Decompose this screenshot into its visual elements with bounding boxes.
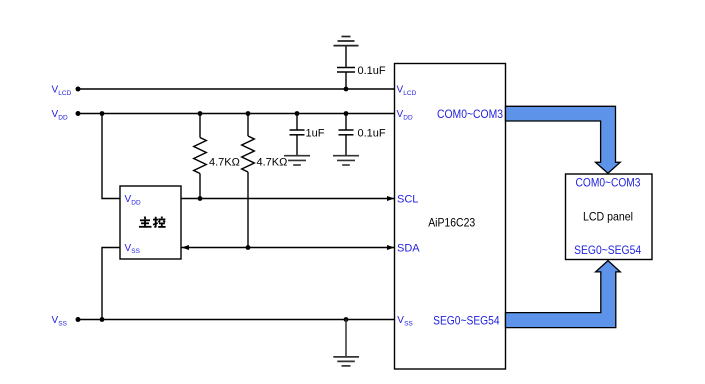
svg-text:SEG0~SEG54: SEG0~SEG54 [433, 314, 500, 328]
node V_SS terminal [76, 317, 81, 322]
label MCU name 主控 (drawn glyphs) [139, 217, 166, 228]
ground above C3 (inverted) [334, 37, 359, 46]
resistor R2 4.7KOhm [242, 114, 255, 248]
resistor R1 4.7KOhm [194, 114, 207, 199]
label MCU pin V_DD [125, 194, 141, 206]
label V_DD (left rail) [52, 109, 68, 121]
svg-text:LCD: LCD [58, 90, 71, 97]
label U1 pin V_DD [397, 109, 413, 121]
label V_LCD (left rail) [52, 85, 72, 97]
node C_01uF top junction [344, 111, 349, 116]
node V_DD drop junction [100, 111, 105, 116]
IC U1 AiP16C23 [395, 64, 506, 370]
svg-text:SCL: SCL [397, 193, 418, 205]
svg-text:SDA: SDA [397, 242, 420, 254]
node C_1uF top junction [295, 111, 300, 116]
svg-text:LCD panel: LCD panel [583, 209, 633, 223]
svg-text:SEG0~SEG54: SEG0~SEG54 [574, 243, 641, 257]
node V_DD terminal [76, 111, 81, 116]
label U1 pin V_LCD [397, 85, 417, 97]
LCD panel block [566, 174, 653, 260]
wire SCL [181, 198, 395, 200]
arrowhead SCL into U1 [387, 196, 395, 201]
ground on V_SS rail [333, 320, 359, 366]
ground under C1 [284, 156, 310, 165]
node R2 top junction [246, 111, 251, 116]
MCU block 主控 [120, 186, 181, 259]
svg-text:DD: DD [403, 114, 413, 121]
svg-text:SS: SS [58, 320, 67, 327]
capacitor C3 0.1uF (top, to V_LCD) [337, 46, 355, 89]
node V_SS ground junction [344, 317, 349, 322]
node V_LCD terminal [76, 87, 81, 92]
capacitor C2 0.1uF [339, 114, 354, 156]
svg-text:DD: DD [131, 199, 141, 206]
wire V_SS rail [78, 319, 395, 321]
label U1 pin V_SS [397, 315, 413, 327]
arrowhead SDA into U1 [387, 245, 395, 250]
bus arrow COM0~COM3 to LCD [506, 106, 621, 173]
node R1 top junction [198, 111, 203, 116]
wire SDA [182, 247, 395, 249]
svg-text:COM0~COM3: COM0~COM3 [576, 176, 641, 190]
svg-text:LCD: LCD [403, 90, 416, 97]
node SCL junction R1 [198, 196, 203, 201]
wire V_SS to MCU [102, 248, 120, 320]
capacitor C1 1uF [290, 114, 305, 156]
svg-text:0.1uF: 0.1uF [358, 127, 386, 139]
svg-text:COM0~COM3: COM0~COM3 [437, 107, 503, 121]
node V_SS drop junction [100, 317, 105, 322]
svg-text:0.1uF: 0.1uF [358, 65, 386, 77]
svg-text:4.7KΩ: 4.7KΩ [209, 156, 240, 168]
bus arrow SEG0~SEG54 to LCD [506, 261, 621, 328]
wire V_DD rail [78, 113, 395, 115]
arrowhead SDA into MCU [182, 245, 190, 250]
svg-text:DD: DD [58, 114, 68, 121]
svg-text:SS: SS [404, 320, 413, 327]
ground under C2 [333, 156, 359, 165]
label MCU pin V_SS [125, 243, 141, 255]
svg-text:SS: SS [131, 248, 140, 255]
svg-text:1uF: 1uF [306, 127, 325, 139]
wire V_DD to MCU [102, 114, 120, 199]
node SDA junction R2 [246, 245, 251, 250]
label V_SS (left rail) [52, 315, 68, 327]
wire V_LCD rail [78, 88, 395, 90]
svg-text:AiP16C23: AiP16C23 [428, 216, 475, 230]
node C_top junction on V_LCD rail [344, 87, 349, 92]
svg-text:4.7KΩ: 4.7KΩ [257, 156, 288, 168]
